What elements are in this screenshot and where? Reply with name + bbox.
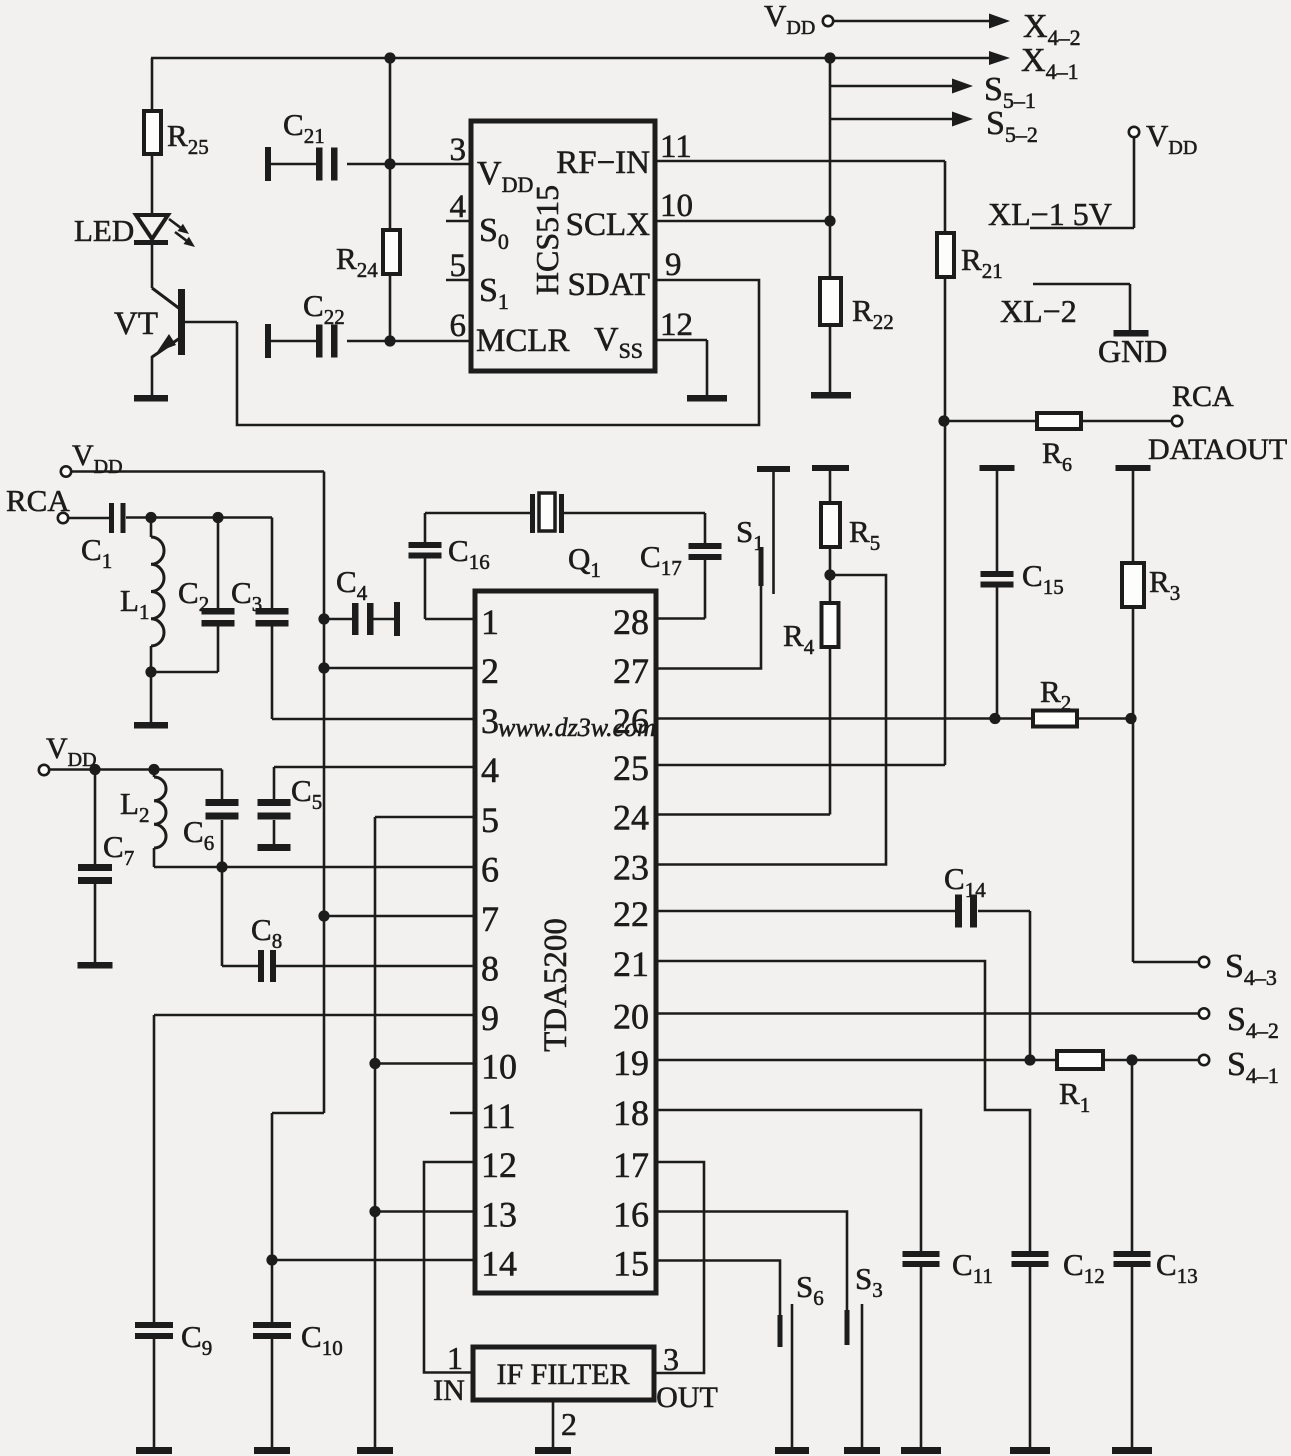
- svg-text:17: 17: [613, 1145, 649, 1185]
- svg-text:7: 7: [481, 899, 499, 939]
- svg-text:22: 22: [613, 894, 649, 934]
- svg-text:11: 11: [660, 129, 692, 165]
- svg-text:GND: GND: [1098, 333, 1167, 369]
- svg-text:TDA5200: TDA5200: [538, 918, 574, 1052]
- svg-text:5: 5: [481, 800, 499, 840]
- svg-text:IF FILTER: IF FILTER: [496, 1358, 629, 1391]
- svg-text:5: 5: [450, 248, 467, 284]
- svg-text:16: 16: [613, 1195, 649, 1235]
- svg-text:6: 6: [481, 850, 499, 890]
- svg-text:14: 14: [481, 1244, 517, 1284]
- svg-text:LED: LED: [74, 213, 134, 248]
- svg-text:2: 2: [481, 651, 499, 691]
- svg-text:20: 20: [613, 997, 649, 1037]
- svg-text:RCA: RCA: [6, 483, 70, 518]
- svg-text:21: 21: [613, 944, 649, 984]
- svg-text:24: 24: [613, 798, 649, 838]
- svg-text:HCS515: HCS515: [529, 185, 565, 295]
- svg-text:19: 19: [613, 1043, 649, 1083]
- svg-text:RCA: RCA: [1172, 380, 1234, 413]
- svg-text:18: 18: [613, 1093, 649, 1133]
- svg-text:SDAT: SDAT: [567, 267, 650, 303]
- svg-text:10: 10: [660, 188, 693, 224]
- svg-text:SCLX: SCLX: [566, 207, 651, 243]
- svg-text:3: 3: [481, 701, 499, 741]
- svg-text:XL−1 5V: XL−1 5V: [988, 196, 1112, 232]
- svg-text:3: 3: [663, 1341, 679, 1377]
- svg-text:8: 8: [481, 949, 499, 989]
- svg-text:9: 9: [665, 247, 682, 283]
- svg-text:6: 6: [450, 308, 467, 344]
- svg-text:23: 23: [613, 848, 649, 888]
- svg-text:12: 12: [660, 307, 693, 343]
- svg-text:11: 11: [481, 1096, 516, 1136]
- svg-text:VT: VT: [114, 306, 158, 342]
- svg-text:25: 25: [613, 748, 649, 788]
- svg-text:28: 28: [613, 602, 649, 642]
- svg-text:IN: IN: [433, 1374, 465, 1407]
- svg-text:OUT: OUT: [656, 1381, 718, 1414]
- svg-text:4: 4: [450, 189, 467, 225]
- svg-text:www.dz3w.com: www.dz3w.com: [498, 713, 656, 742]
- svg-text:4: 4: [481, 750, 499, 790]
- svg-text:10: 10: [481, 1047, 517, 1087]
- svg-text:DATAOUT: DATAOUT: [1148, 433, 1287, 466]
- svg-text:MCLR: MCLR: [476, 323, 570, 359]
- svg-text:9: 9: [481, 998, 499, 1038]
- svg-text:1: 1: [481, 602, 499, 642]
- svg-text:27: 27: [613, 651, 649, 691]
- svg-text:13: 13: [481, 1195, 517, 1235]
- svg-text:2: 2: [561, 1406, 577, 1442]
- svg-text:15: 15: [613, 1244, 649, 1284]
- svg-text:1: 1: [447, 1340, 463, 1376]
- svg-text:3: 3: [450, 132, 467, 168]
- svg-text:RF−IN: RF−IN: [556, 145, 650, 181]
- svg-text:12: 12: [481, 1145, 517, 1185]
- svg-text:XL−2: XL−2: [1000, 293, 1077, 329]
